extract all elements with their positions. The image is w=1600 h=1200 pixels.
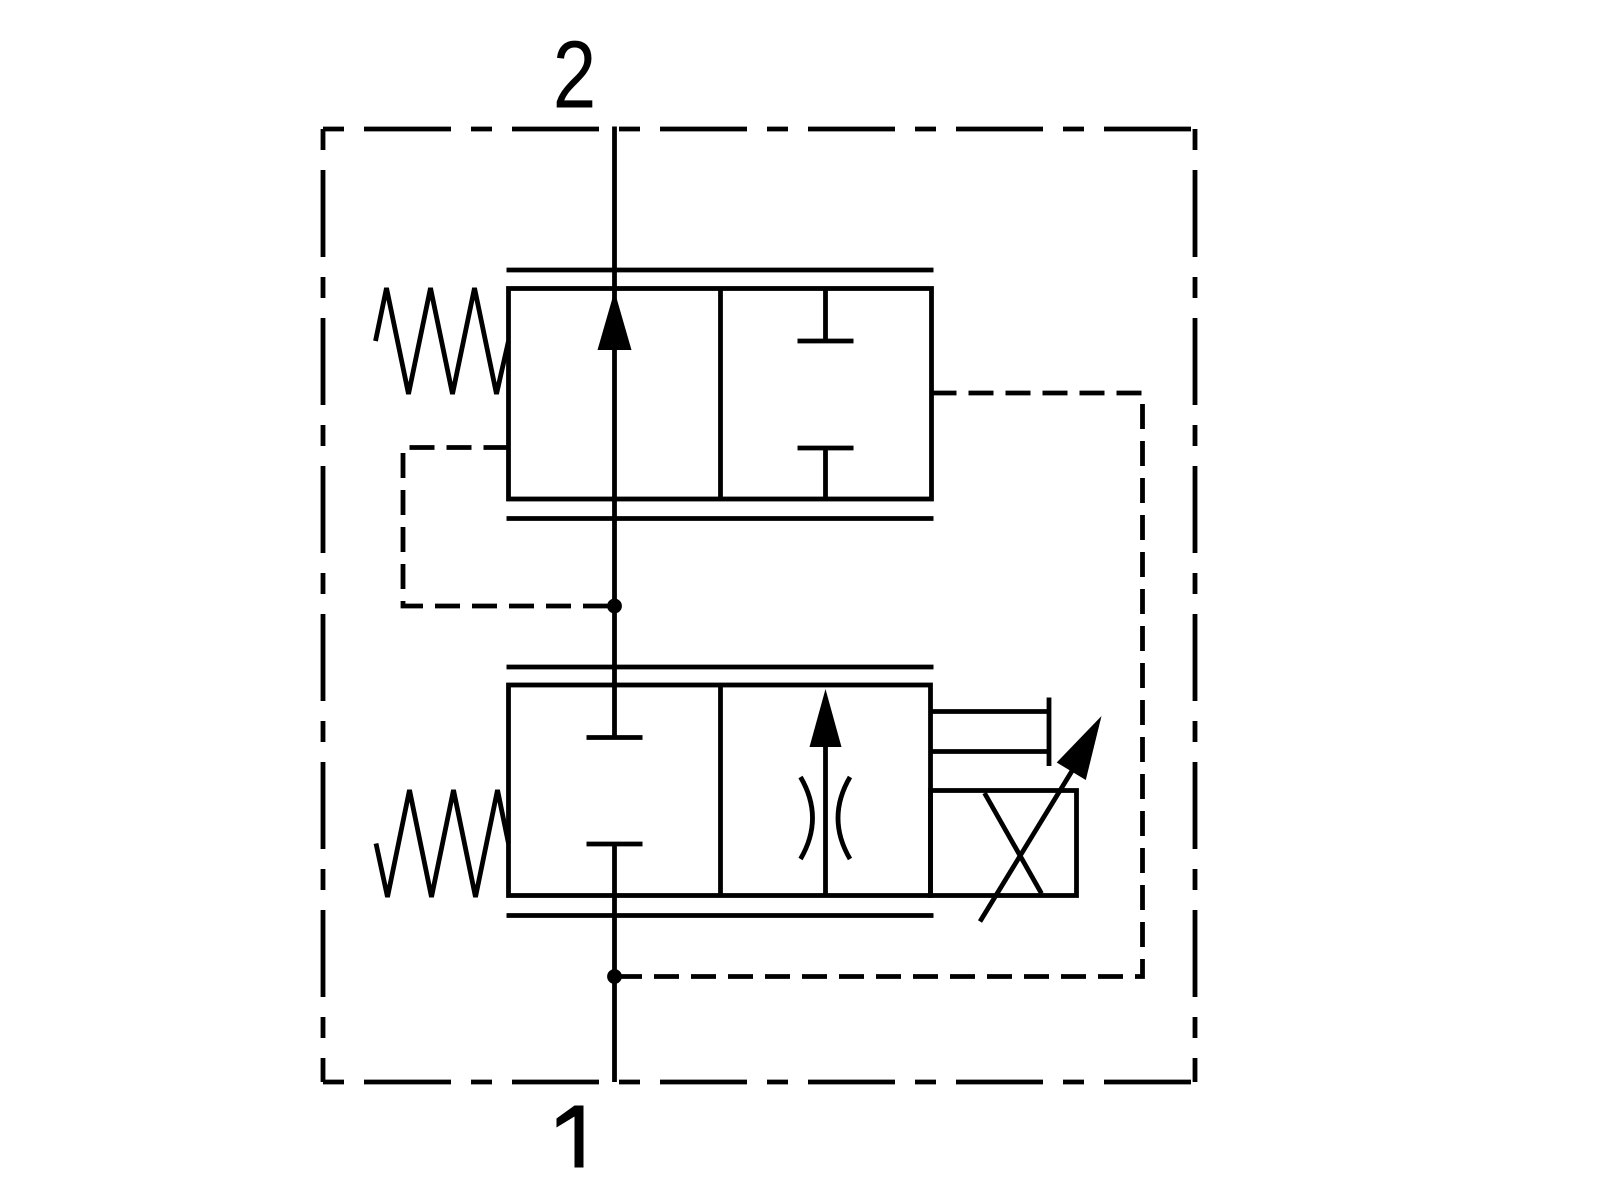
svg-text:2: 2	[553, 21, 596, 128]
